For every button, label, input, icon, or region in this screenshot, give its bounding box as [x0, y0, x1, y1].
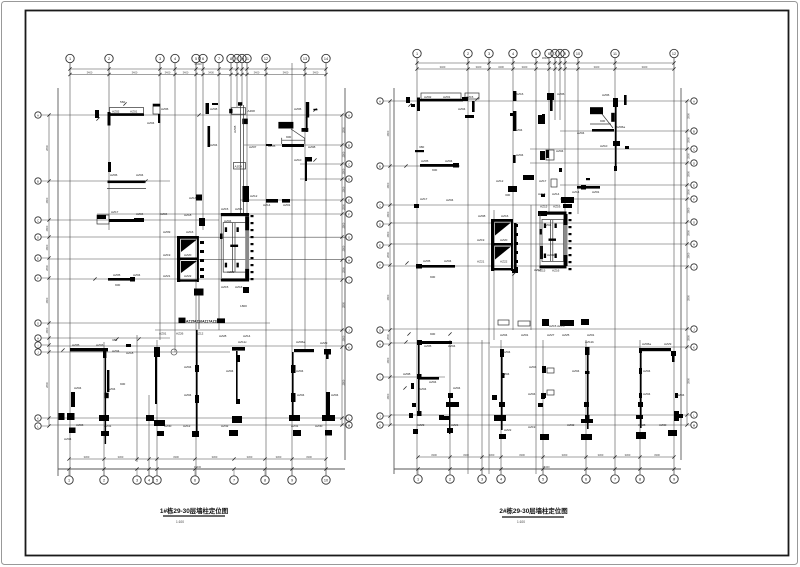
box550 R: [540, 149, 564, 160]
svg-text:AZ05: AZ05: [424, 344, 432, 348]
subaxis circle: [171, 349, 177, 355]
svg-text:B: B: [693, 129, 695, 133]
svg-text:2800: 2800: [342, 245, 346, 251]
core R right wall: [564, 212, 572, 270]
plan L boundary grid lines: [57, 88, 59, 476]
svg-text:AZ04: AZ04: [503, 350, 511, 354]
svg-text:2800: 2800: [386, 294, 390, 300]
svg-text:3400: 3400: [498, 65, 504, 69]
svg-text:H: H: [693, 242, 695, 246]
svg-text:F: F: [693, 197, 695, 201]
svg-text:AZ09: AZ09: [163, 230, 171, 234]
svg-text:1: 1: [69, 57, 71, 61]
svg-text:380: 380: [419, 145, 424, 149]
svg-text:H: H: [348, 258, 350, 262]
svg-text:3400: 3400: [254, 70, 260, 74]
row342 bar R: [404, 332, 455, 348]
svg-text:AZ06: AZ06: [557, 92, 565, 96]
svg-text:AZ01: AZ01: [130, 109, 138, 113]
col418 wall R: [417, 344, 422, 416]
svg-text:D: D: [348, 177, 350, 181]
note bold R: [590, 107, 615, 128]
svg-text:12: 12: [264, 57, 268, 61]
svg-text:AZ03: AZ03: [96, 343, 104, 347]
svg-text:3300: 3300: [276, 455, 282, 459]
svg-text:AZ05: AZ05: [423, 259, 431, 263]
svg-text:2800: 2800: [342, 127, 346, 133]
svg-text:AZ08: AZ08: [210, 107, 218, 111]
svg-text:AZ04: AZ04: [453, 386, 461, 390]
svg-text:C: C: [37, 218, 39, 222]
svg-text:7: 7: [218, 57, 220, 61]
wall AZ05-AZ08 bar: [249, 144, 316, 149]
svg-text:AZ04: AZ04: [184, 393, 192, 397]
svg-text:AZ11b: AZ11b: [585, 340, 594, 344]
svg-text:2#栋29-30层墙柱定位图: 2#栋29-30层墙柱定位图: [499, 506, 567, 515]
svg-text:3: 3: [159, 57, 161, 61]
svg-text:2800: 2800: [45, 382, 49, 388]
svg-text:AZ02: AZ02: [424, 95, 432, 99]
svg-text:1:100: 1:100: [517, 520, 525, 524]
svg-text:AZ16: AZ16: [235, 285, 243, 289]
svg-text:D: D: [37, 235, 39, 239]
plan L horizontal grid lines: [49, 114, 345, 116]
wall AZ08 col: [197, 103, 218, 117]
svg-text:2800: 2800: [45, 244, 49, 250]
svg-text:AZ01: AZ01: [521, 333, 529, 337]
svg-text:8: 8: [639, 477, 641, 481]
plan R top dimension lines: [417, 62, 674, 64]
svg-text:1#栋29-30层墙柱定位图: 1#栋29-30层墙柱定位图: [160, 506, 228, 515]
svg-text:5: 5: [542, 477, 544, 481]
svg-text:D: D: [693, 161, 695, 165]
svg-text:AZ10: AZ10: [600, 144, 608, 148]
cluster R 200: [561, 197, 574, 208]
col236 bottom blobs: [221, 416, 242, 436]
svg-text:5: 5: [156, 478, 158, 482]
svg-text:3: 3: [488, 52, 490, 56]
svg-text:H: H: [37, 336, 39, 340]
svg-text:2800: 2800: [687, 171, 691, 177]
svg-text:AZ04: AZ04: [502, 372, 510, 376]
svg-text:10: 10: [324, 478, 328, 482]
svg-text:2: 2: [467, 52, 469, 56]
stair walls: [163, 230, 204, 282]
wall AZ06c: [294, 102, 317, 132]
svg-text:AZ01: AZ01: [587, 333, 595, 337]
svg-text:2: 2: [449, 477, 451, 481]
col513 wall R: [510, 91, 524, 163]
svg-text:AZ18: AZ18: [184, 213, 192, 217]
svg-text:AZ04: AZ04: [528, 392, 536, 396]
svg-text:6: 6: [194, 478, 196, 482]
col514 R: [512, 223, 518, 276]
svg-text:900: 900: [286, 135, 291, 139]
svg-text:AZ12: AZ12: [183, 424, 191, 428]
svg-text:2: 2: [108, 57, 110, 61]
svg-text:8: 8: [264, 478, 266, 482]
svg-text:H: H: [379, 342, 381, 346]
svg-text:1800: 1800: [240, 304, 247, 308]
svg-text:AZ22: AZ22: [184, 274, 192, 278]
svg-text:AZ17: AZ17: [420, 197, 428, 201]
svg-text:3300: 3300: [463, 453, 469, 457]
svg-text:E: E: [37, 256, 39, 260]
svg-text:B: B: [37, 179, 39, 183]
svg-text:AZ06a: AZ06a: [296, 340, 305, 344]
svg-text:3400: 3400: [208, 70, 214, 74]
svg-text:2800: 2800: [687, 230, 691, 236]
svg-text:AZ12: AZ12: [250, 194, 258, 198]
row344 dim: [112, 337, 141, 355]
plan L bottom axis circles: [65, 476, 73, 484]
col541 R2: [534, 211, 547, 272]
svg-text:AZ32: AZ32: [567, 423, 575, 427]
col541 R: [538, 115, 545, 197]
svg-text:AZ08: AZ08: [403, 372, 411, 376]
svg-text:AZ17: AZ17: [111, 210, 119, 214]
svg-text:3300: 3300: [431, 453, 437, 457]
svg-text:38400: 38400: [542, 465, 550, 469]
svg-text:AZ21: AZ21: [451, 423, 459, 427]
svg-text:AZ30: AZ30: [315, 424, 323, 428]
svg-text:AZ04: AZ04: [184, 365, 192, 369]
svg-text:AZ06: AZ06: [110, 173, 118, 177]
svg-text:AZ10: AZ10: [294, 158, 302, 162]
col501 wall R: [500, 349, 511, 430]
svg-text:K: K: [693, 345, 695, 349]
svg-text:A: A: [693, 99, 695, 103]
svg-text:AZ19: AZ19: [477, 238, 485, 242]
svg-text:K: K: [379, 423, 381, 427]
col196 wall: [183, 330, 199, 437]
svg-text:AZ02: AZ02: [112, 109, 120, 113]
svg-text:2800: 2800: [386, 334, 390, 340]
wall AZ17 R: [538, 179, 560, 196]
svg-text:3400: 3400: [165, 70, 171, 74]
bar AZ05-AZ04 R: [404, 159, 459, 172]
svg-text:AZ14: AZ14: [263, 203, 271, 207]
plan R vertical grid lines: [416, 58, 418, 474]
svg-text:2800: 2800: [342, 168, 346, 174]
svg-text:AZ30: AZ30: [659, 423, 667, 427]
svg-text:AZ17: AZ17: [539, 179, 547, 183]
col640 wall R: [636, 348, 651, 439]
bar AZ14-AZ01 R: [572, 178, 600, 194]
svg-text:3300: 3300: [306, 455, 312, 459]
svg-text:3400: 3400: [313, 70, 319, 74]
svg-text:2800: 2800: [687, 137, 691, 143]
svg-text:560: 560: [120, 100, 125, 104]
svg-text:2800: 2800: [342, 379, 346, 385]
svg-text:AZ11c: AZ11c: [238, 340, 247, 344]
svg-text:AZ15: AZ15: [221, 207, 229, 211]
plan R boundary grid lines: [393, 88, 395, 474]
note bold L: [278, 122, 305, 144]
svg-text:900: 900: [600, 119, 605, 123]
wall AZ10: [294, 157, 317, 181]
svg-text:2800: 2800: [687, 252, 691, 258]
core right wall: [245, 215, 253, 280]
core outline: [220, 207, 249, 289]
plan R horizontal grid lines: [390, 100, 687, 102]
svg-text:AZ26: AZ26: [176, 332, 184, 336]
svg-text:2800: 2800: [45, 265, 49, 271]
svg-text:F: F: [379, 263, 381, 267]
svg-text:3400: 3400: [594, 65, 600, 69]
svg-text:AZ12: AZ12: [496, 179, 504, 183]
dim 900: [286, 135, 291, 139]
wall AZ14-AZ01: [263, 199, 291, 207]
note AZ12 R: [496, 175, 534, 197]
wall AZ12: [189, 186, 258, 202]
svg-text:AZ04: AZ04: [133, 273, 141, 277]
svg-text:6: 6: [585, 477, 587, 481]
svg-text:AZ22: AZ22: [504, 428, 512, 432]
wall AZ18 blob: [199, 218, 205, 226]
svg-text:B: B: [348, 143, 350, 147]
svg-text:2800: 2800: [386, 252, 390, 258]
svg-text:AZ08: AZ08: [478, 214, 486, 218]
svg-text:4: 4: [148, 478, 150, 482]
svg-text:AZ04: AZ04: [458, 107, 466, 111]
plan R left axis circles: [377, 98, 383, 104]
svg-text:AZ04: AZ04: [444, 259, 452, 263]
svg-text:3400: 3400: [132, 70, 138, 74]
wall AZ06 R: [542, 92, 565, 124]
svg-text:AZ30: AZ30: [164, 424, 172, 428]
svg-text:AZ04: AZ04: [572, 369, 580, 373]
svg-text:38400: 38400: [194, 465, 202, 469]
svg-text:AZ31: AZ31: [104, 424, 112, 428]
svg-text:AZ06a: AZ06a: [642, 342, 651, 346]
blob row320: [159, 318, 225, 336]
svg-text:6: 6: [548, 52, 550, 56]
wall mid tick: [107, 162, 148, 189]
svg-text:AZ29: AZ29: [664, 342, 672, 346]
plan L top dimension lines: [70, 68, 326, 70]
plan L top axis circles: [66, 54, 74, 62]
svg-text:1:100: 1:100: [176, 520, 184, 524]
svg-text:AZ04: AZ04: [577, 131, 585, 135]
svg-text:AZ04: AZ04: [210, 143, 218, 147]
mid blobs155: [146, 347, 172, 436]
svg-text:AZ19: AZ19: [528, 425, 536, 429]
svg-text:2800: 2800: [45, 145, 49, 151]
svg-text:6: 6: [202, 57, 204, 61]
svg-text:4: 4: [512, 52, 514, 56]
svg-text:3300: 3300: [118, 455, 124, 459]
svg-text:2800: 2800: [45, 225, 49, 231]
plan R right dimension line: [686, 101, 688, 425]
svg-text:AZ31: AZ31: [291, 424, 299, 428]
svg-text:3400: 3400: [642, 65, 648, 69]
svg-text:AZ06: AZ06: [602, 93, 610, 97]
svg-text:13: 13: [303, 57, 307, 61]
svg-text:AZ04: AZ04: [429, 380, 437, 384]
svg-text:A: A: [379, 99, 381, 103]
svg-text:3300: 3300: [212, 455, 218, 459]
plan R left dimension line: [389, 101, 391, 425]
svg-text:2800: 2800: [687, 207, 691, 213]
svg-text:3400: 3400: [522, 65, 528, 69]
svg-text:AZ04: AZ04: [446, 198, 454, 202]
svg-text:E: E: [379, 243, 381, 247]
svg-text:AZ04: AZ04: [643, 369, 651, 373]
wall right end R: [458, 97, 479, 118]
svg-text:AZ04: AZ04: [515, 128, 523, 132]
svg-text:AZ04: AZ04: [331, 393, 339, 397]
svg-text:AZ18: AZ18: [126, 351, 134, 355]
svg-text:1: 1: [417, 477, 419, 481]
svg-text:AZ04: AZ04: [556, 149, 564, 153]
svg-text:38400: 38400: [542, 56, 550, 60]
svg-text:AZ21: AZ21: [477, 260, 485, 264]
svg-text:AZ04: AZ04: [529, 365, 537, 369]
svg-text:2800: 2800: [45, 297, 49, 303]
svg-text:9: 9: [291, 478, 293, 482]
svg-text:3300: 3300: [562, 453, 568, 457]
svg-text:38400: 38400: [194, 62, 202, 66]
svg-text:AZ04: AZ04: [74, 386, 82, 390]
svg-text:2800: 2800: [342, 151, 346, 157]
svg-text:2800: 2800: [45, 197, 49, 203]
svg-text:AZ08: AZ08: [248, 109, 256, 113]
svg-text:7: 7: [233, 478, 235, 482]
svg-text:AZ21: AZ21: [163, 274, 171, 278]
plan L left axis circles: [35, 112, 41, 118]
col292 wall: [289, 340, 331, 436]
svg-text:AZ20: AZ20: [184, 253, 192, 257]
wall AZ17: [97, 210, 192, 224]
svg-text:3300: 3300: [625, 453, 631, 457]
top labels row334: [0, 0, 1, 1]
wall AZ05-AZ04 bar2: [93, 273, 140, 287]
col328 wall: [315, 392, 339, 436]
svg-text:AZ15AZ16AZ17AZ18: AZ15AZ16AZ17AZ18: [186, 320, 218, 324]
tick row150 R: [415, 145, 424, 152]
svg-text:AZ04: AZ04: [445, 159, 453, 163]
cross R: [439, 386, 461, 434]
svg-text:F: F: [37, 276, 39, 280]
svg-text:2800: 2800: [687, 153, 691, 159]
svg-text:D: D: [379, 222, 381, 226]
svg-text:2800: 2800: [342, 267, 346, 273]
T R 500: [494, 415, 536, 439]
svg-text:AZ16: AZ16: [186, 230, 194, 234]
svg-text:3300: 3300: [654, 453, 660, 457]
svg-text:11: 11: [245, 57, 249, 61]
svg-text:900: 900: [115, 283, 120, 287]
svg-text:1: 1: [68, 478, 70, 482]
svg-text:K: K: [348, 345, 350, 349]
svg-text:AZ32: AZ32: [221, 424, 229, 428]
svg-text:A: A: [348, 113, 350, 117]
svg-text:AZ15 AZ16: AZ15 AZ16: [549, 324, 565, 328]
svg-text:AZ16: AZ16: [552, 269, 560, 273]
svg-text:2: 2: [103, 478, 105, 482]
svg-text:AZ15: AZ15: [538, 269, 546, 273]
svg-text:AZ08: AZ08: [233, 125, 237, 133]
bottom bar R: [542, 319, 589, 328]
svg-text:AZ27: AZ27: [547, 333, 555, 337]
svg-text:2800: 2800: [386, 130, 390, 136]
wall AZ08b: [229, 102, 255, 214]
svg-text:AZ04: AZ04: [235, 165, 243, 169]
svg-text:1: 1: [416, 52, 418, 56]
svg-text:2800: 2800: [687, 113, 691, 119]
svg-text:AZ04: AZ04: [160, 212, 168, 216]
svg-text:AZ16: AZ16: [553, 205, 561, 209]
svg-text:900: 900: [430, 332, 435, 336]
svg-text:AZ06: AZ06: [294, 107, 302, 111]
svg-text:AZ06: AZ06: [161, 107, 169, 111]
svg-text:E: E: [693, 183, 695, 187]
row348 bar: [61, 343, 108, 358]
svg-text:AZ29: AZ29: [417, 423, 425, 427]
plan R bottom axis circles: [414, 475, 422, 483]
svg-text:2800: 2800: [386, 211, 390, 217]
svg-text:3400: 3400: [183, 70, 189, 74]
left edge R mid: [540, 366, 554, 440]
svg-text:AZ01: AZ01: [283, 203, 291, 207]
svg-text:AZ07: AZ07: [249, 145, 257, 149]
svg-text:12: 12: [672, 52, 676, 56]
svg-text:4: 4: [174, 57, 176, 61]
svg-text:AZ04: AZ04: [677, 393, 685, 397]
tick560 R: [559, 168, 562, 172]
svg-text:14: 14: [324, 57, 328, 61]
svg-text:5: 5: [195, 57, 197, 61]
svg-text:C: C: [379, 203, 381, 207]
svg-text:AZ14: AZ14: [572, 190, 580, 194]
svg-text:3300: 3300: [84, 455, 90, 459]
svg-text:E: E: [348, 198, 350, 202]
svg-text:AZ04: AZ04: [296, 369, 304, 373]
svg-text:2800: 2800: [386, 357, 390, 363]
svg-text:2800: 2800: [687, 378, 691, 384]
svg-text:AZ04: AZ04: [136, 173, 144, 177]
svg-text:2800: 2800: [342, 335, 346, 341]
svg-text:AZ13: AZ13: [189, 196, 197, 200]
svg-text:3: 3: [481, 477, 483, 481]
core R: [538, 205, 567, 273]
svg-text:AZ04: AZ04: [643, 392, 651, 396]
svg-text:AZ04: AZ04: [448, 344, 456, 348]
svg-text:3400: 3400: [87, 70, 93, 74]
svg-text:9: 9: [564, 52, 566, 56]
bar AZ05 R2: [405, 259, 455, 279]
svg-text:2800: 2800: [342, 204, 346, 210]
svg-text:AZ19: AZ19: [163, 253, 171, 257]
svg-text:10: 10: [576, 52, 580, 56]
svg-text:AZ20: AZ20: [500, 238, 508, 242]
plan R right axis circles: [691, 98, 697, 104]
svg-text:F: F: [348, 212, 350, 216]
svg-text:3300: 3300: [519, 453, 525, 457]
svg-text:AZ09: AZ09: [547, 253, 555, 257]
left wall col104: [105, 352, 116, 444]
svg-text:900: 900: [120, 382, 125, 386]
svg-text:3: 3: [136, 478, 138, 482]
svg-text:3300: 3300: [598, 453, 604, 457]
svg-text:300: 300: [505, 193, 510, 197]
svg-text:AZ04: AZ04: [224, 219, 232, 223]
svg-text:2800: 2800: [386, 393, 390, 399]
svg-text:3300: 3300: [489, 453, 495, 457]
svg-text:8: 8: [230, 57, 232, 61]
plan L bottom dimension lines: [69, 458, 326, 460]
